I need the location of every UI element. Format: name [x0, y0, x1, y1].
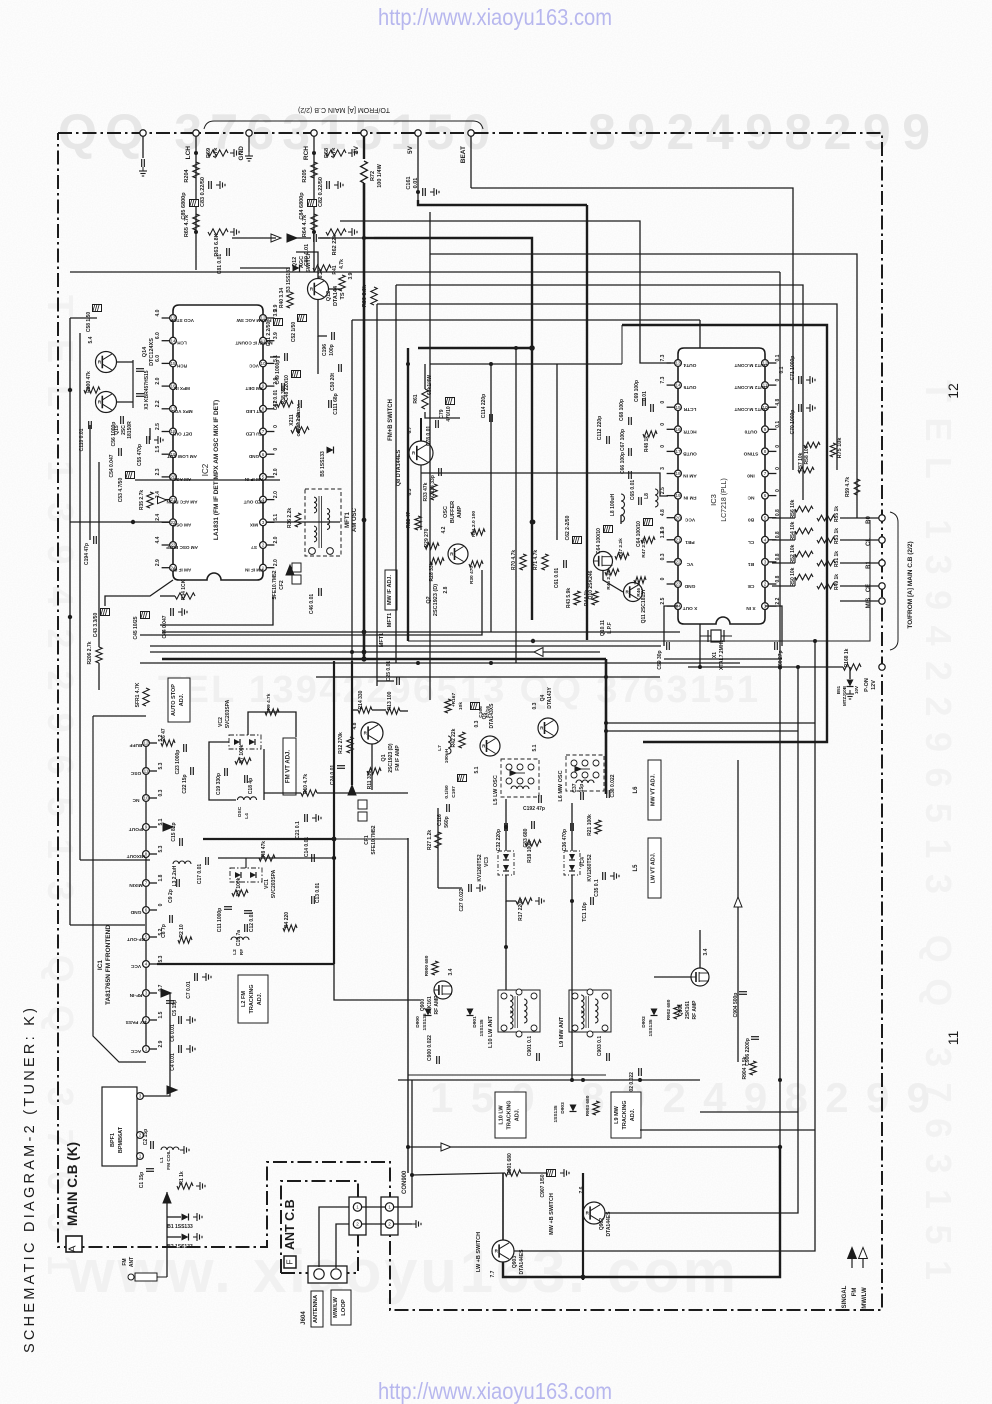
connector pin on top rail	[140, 130, 146, 136]
svg-text:MIX: MIX	[249, 522, 258, 527]
transistor Q5 DTA143XS	[480, 736, 500, 756]
capacitor C197 0.1/50 electrolytic	[458, 775, 467, 782]
svg-text:R36 2.2k: R36 2.2k	[287, 508, 293, 529]
svg-text:C4 0.01: C4 0.01	[170, 1053, 176, 1071]
IC3 pin 15	[675, 404, 682, 411]
resistor R34 1CK	[175, 593, 195, 599]
svg-text:3: 3	[764, 560, 767, 565]
IC2 pin 20	[170, 474, 177, 481]
IC2 pin 3	[260, 519, 267, 526]
svg-text:OUT2 M.CONT: OUT2 M.CONT	[734, 384, 767, 390]
connector pin M/S right rail	[879, 598, 885, 604]
capacitor C904 500p	[739, 991, 747, 993]
svg-text:6: 6	[145, 908, 148, 913]
svg-text:ADJ.: ADJ.	[630, 1108, 636, 1121]
resistor R57 10k	[798, 467, 814, 473]
svg-text:MW IF ADJ.: MW IF ADJ.	[387, 575, 393, 606]
IC1 pin 2	[143, 1017, 150, 1024]
resistor R52 10k	[795, 551, 813, 557]
node d2	[362, 518, 367, 523]
resistor R33 47k	[431, 484, 437, 500]
svg-text:C17 0.01: C17 0.01	[197, 864, 203, 885]
svg-text:20: 20	[675, 515, 681, 520]
wire bus y348	[418, 347, 532, 349]
svg-text:LCTR: LCTR	[683, 406, 696, 412]
capacitor C67 100p	[628, 448, 630, 456]
svg-text:BEAT: BEAT	[460, 146, 467, 163]
capacitor C9 2p	[176, 879, 178, 887]
arrow RF-IN	[161, 989, 171, 997]
svg-text:3: 3	[660, 467, 666, 470]
svg-text:C27 0.022: C27 0.022	[459, 888, 465, 911]
svg-text:ANT: ANT	[129, 1257, 135, 1267]
wire mw thick	[503, 1147, 780, 1277]
resistor R56 10k	[795, 506, 813, 512]
resistor R61 68k1/4W	[422, 389, 428, 409]
resistor R13 100	[386, 708, 400, 714]
svg-text:5.3: 5.3	[158, 762, 164, 769]
op-amp IC3 LC7218 outline	[678, 348, 765, 624]
capacitor C24 0.01	[337, 765, 345, 767]
svg-text:4.7k: 4.7k	[339, 259, 345, 269]
boxed label L2 FM TRACKING ADJ	[238, 975, 268, 1023]
IC3 pin 6	[762, 492, 769, 499]
wire bus y221	[340, 221, 671, 363]
svg-text:C37: C37	[572, 783, 578, 792]
svg-text:R58 10k: R58 10k	[804, 445, 810, 464]
IC3 pin 9	[762, 426, 769, 433]
wire c25 row	[377, 680, 394, 682]
arrow v738	[734, 897, 742, 907]
svg-text:4.2: 4.2	[273, 400, 279, 407]
IC3 pin 24	[675, 603, 682, 610]
resistor R51 1k	[817, 560, 835, 566]
svg-text:R14 330: R14 330	[358, 690, 364, 709]
capacitor C60 27p	[774, 642, 776, 650]
svg-text:0.8: 0.8	[775, 553, 781, 560]
arrow lw	[441, 1143, 451, 1151]
wire bus y625	[160, 596, 273, 625]
inductor L7 100uH	[448, 736, 451, 742]
resistor R167 10k	[445, 699, 451, 713]
svg-text:X211: X211	[289, 414, 295, 426]
capacitor C111 68p	[328, 400, 330, 408]
svg-text:R75 10k: R75 10k	[837, 437, 843, 459]
wire BEAT run	[471, 188, 793, 470]
IC1 pin 10	[143, 795, 150, 802]
diode B2 1SS133	[182, 1234, 189, 1241]
resistor R49 1k	[817, 583, 835, 589]
fet Q10 2SK246	[594, 552, 613, 571]
node d8	[406, 1145, 410, 1149]
wire staircase2	[514, 641, 815, 1251]
resistor R204	[193, 162, 199, 178]
resistor R45 2.2k	[605, 569, 619, 575]
node RCH b	[312, 230, 316, 234]
svg-text:C11 1000p: C11 1000p	[217, 908, 223, 932]
diode D901 1SS135	[467, 1009, 474, 1016]
svg-text:ADJ.: ADJ.	[515, 1108, 521, 1121]
svg-text:18150R: 18150R	[127, 421, 133, 439]
resistor R14 330	[358, 707, 372, 713]
svg-text:0.01: 0.01	[413, 178, 419, 189]
svg-text:C7 0.01: C7 0.01	[186, 981, 192, 999]
svg-text:RF-IN: RF-IN	[129, 992, 142, 998]
wire l4 inner	[263, 749, 265, 800]
svg-text:0.3: 0.3	[474, 720, 480, 727]
resistor R12 270k	[347, 737, 353, 753]
IC2 pin 15	[170, 360, 177, 367]
svg-text:1: 1	[145, 1047, 148, 1052]
svg-text:SFE10.7M52: SFE10.7M52	[272, 570, 278, 599]
capacitor C54 0.047	[118, 448, 120, 456]
IC2 pin 6	[260, 451, 267, 458]
IC3 pin 8	[762, 448, 769, 455]
boxed label L9 MW TRACKING ADJ	[611, 1092, 641, 1138]
svg-text:R33 47k: R33 47k	[423, 482, 429, 501]
arrow BPF out	[167, 1086, 177, 1094]
svg-text:LCH: LCH	[185, 146, 192, 160]
svg-text:R7 100k: R7 100k	[239, 744, 245, 763]
svg-text:AM AFC RF IN: AM AFC RF IN	[166, 500, 198, 505]
label F ANT C.B	[284, 1256, 296, 1268]
diode B3 1SS133	[293, 265, 300, 272]
svg-text:R43 5.9k: R43 5.9k	[566, 588, 572, 609]
capacitor C43 3.3/50 electrolytic	[101, 609, 110, 616]
capacitor C112 220p	[606, 436, 608, 444]
svg-text:0.1: 0.1	[775, 421, 781, 428]
svg-text:X OUT: X OUT	[683, 605, 698, 611]
svg-text:CON900: CON900	[402, 1170, 408, 1194]
IC3 pin 1	[762, 603, 769, 610]
node d23	[416, 661, 420, 665]
svg-text:R27 1.2k: R27 1.2k	[427, 830, 433, 851]
svg-text:DTA144: DTA144	[333, 285, 339, 306]
wire q902 col thick	[582, 1173, 584, 1280]
svg-text:21: 21	[675, 537, 681, 542]
svg-text:2.0: 2.0	[273, 559, 279, 566]
node d25	[350, 650, 354, 654]
IC2 pin 10	[260, 360, 267, 367]
wire q14 to x3	[116, 361, 133, 363]
resistor R17 220k	[516, 898, 532, 904]
svg-text:B51: B51	[836, 685, 841, 694]
svg-text:15p: 15p	[579, 784, 585, 793]
wire bus y659 thick	[162, 658, 606, 661]
svg-text:R71 4.7k: R71 4.7k	[533, 550, 539, 571]
wire c49 row	[270, 356, 280, 358]
diode D903 1SS135	[570, 1105, 577, 1112]
transformer L10 LW ANT	[498, 990, 540, 1032]
svg-text:0.1: 0.1	[775, 354, 781, 361]
svg-text:4.8: 4.8	[660, 509, 666, 516]
svg-text:C53 4.7/50: C53 4.7/50	[118, 478, 124, 503]
resistor R900 680	[432, 961, 438, 975]
capacitor C161 0.01	[422, 188, 424, 196]
svg-text:2.9: 2.9	[158, 1040, 164, 1047]
IC2 pin 11	[260, 337, 267, 344]
svg-text:0.3: 0.3	[158, 789, 164, 796]
resistor R7 100k	[235, 758, 251, 764]
node vc4 b	[570, 899, 574, 903]
svg-text:C64 100/10: C64 100/10	[596, 528, 602, 554]
IC3 pin 21	[675, 536, 682, 543]
BPF1 pin 3	[137, 1093, 144, 1100]
svg-text:OSC: OSC	[130, 770, 141, 776]
svg-text:C12 0.01: C12 0.01	[249, 912, 255, 933]
svg-text:3: 3	[145, 991, 148, 996]
connector pin LCH on top rail	[193, 130, 199, 136]
resistor R901 680	[505, 1170, 521, 1176]
capacitor C902 0.022	[638, 1068, 640, 1076]
capacitor C27 0.022	[468, 884, 470, 892]
svg-text:0: 0	[775, 445, 781, 448]
svg-text:16: 16	[675, 427, 681, 432]
wire vc3 down	[506, 875, 516, 901]
svg-text:0: 0	[273, 448, 279, 451]
svg-text:OUT1 M.CONT: OUT1 M.CONT	[734, 406, 767, 412]
svg-text:L8 100uH: L8 100uH	[610, 493, 616, 516]
wire vc3 col	[505, 799, 507, 851]
svg-text:C55 470p: C55 470p	[137, 444, 143, 466]
svg-text:R9 4.7k: R9 4.7k	[266, 693, 272, 710]
wire bus y646	[150, 645, 661, 647]
svg-text:R63 6.8K: R63 6.8K	[214, 233, 220, 256]
wire v491	[490, 364, 492, 632]
connector pin RCH on top rail	[311, 130, 317, 136]
svg-text:R35 2.7k: R35 2.7k	[139, 490, 145, 511]
svg-text:2SK161: 2SK161	[685, 1001, 691, 1019]
IC2 pin15 stub	[162, 362, 170, 364]
svg-text:0.1/50: 0.1/50	[444, 785, 450, 799]
svg-text:R62 22k: R62 22k	[332, 234, 338, 256]
svg-text:B1: B1	[748, 561, 754, 567]
svg-text:11: 11	[945, 1031, 961, 1046]
wire v396	[395, 285, 397, 663]
inductor L4 coil	[237, 797, 243, 800]
wire lch down	[195, 238, 197, 270]
wire stair b	[407, 838, 409, 1173]
wire vc4 down	[571, 875, 573, 1080]
capacitor X211 CBA10.7M537A	[298, 400, 300, 408]
node d13	[362, 630, 367, 635]
svg-text:1SS135: 1SS135	[479, 1019, 485, 1036]
IC2 pin 21	[170, 496, 177, 503]
IC1 pin 3	[143, 990, 150, 997]
svg-text:R901 680: R901 680	[507, 1153, 513, 1175]
svg-text:11: 11	[144, 769, 149, 774]
BPF1 pin 2	[137, 1132, 144, 1139]
svg-text:0.8: 0.8	[775, 531, 781, 538]
svg-text:3: 3	[139, 1094, 142, 1099]
wire thick v408	[407, 348, 409, 641]
svg-text:5: 5	[764, 515, 767, 520]
capacitor C62 2-2/50 electrolytic	[573, 537, 582, 544]
svg-text:ANTENNA: ANTENNA	[313, 1294, 319, 1323]
svg-text:R18 100k: R18 100k	[527, 841, 533, 863]
svg-text:ACC: ACC	[130, 1048, 141, 1054]
wire mid h520 right	[267, 521, 340, 523]
svg-text:2.5: 2.5	[155, 423, 161, 430]
svg-text:P-ON: P-ON	[864, 678, 870, 692]
svg-text:R61: R61	[413, 394, 419, 403]
antenna FM ANT jack	[135, 1273, 157, 1281]
capacitor C901 0.1	[536, 1053, 538, 1061]
svg-text:2.8: 2.8	[443, 586, 449, 593]
node l2 corner	[332, 837, 337, 842]
svg-text:R205: R205	[302, 169, 308, 182]
capacitor C70 1000p	[798, 404, 800, 412]
svg-text:R64 4.7k: R64 4.7k	[302, 214, 308, 237]
wire r61 c79	[425, 412, 460, 418]
wire l8 down	[620, 515, 622, 524]
svg-text:R100 47k: R100 47k	[86, 371, 92, 393]
svg-text:2: 2	[388, 1222, 391, 1227]
wire bottom h925	[70, 924, 145, 926]
wire bus y663	[140, 662, 740, 664]
node d15	[604, 721, 608, 725]
resistor R50 10k	[795, 574, 813, 580]
wire v780 long	[779, 272, 781, 1147]
resistor R70 4.7k	[520, 554, 526, 570]
svg-text:LCH: LCH	[177, 341, 187, 346]
inner dash box ANT C.B	[281, 1181, 358, 1273]
svg-text:http://www.xiaoyu163.com: http://www.xiaoyu163.com	[378, 1378, 612, 1404]
svg-text:2.0: 2.0	[155, 377, 161, 384]
resistor R55 1k	[817, 515, 835, 521]
wire q8 down	[420, 465, 422, 530]
svg-text:Q12: Q12	[326, 291, 332, 301]
resistor R904 1.5k	[750, 1061, 756, 1075]
capacitor C12 0.01	[244, 910, 252, 912]
svg-text:C15 82p: C15 82p	[171, 822, 177, 841]
capacitor C79 470/10 electrolytic	[446, 398, 455, 405]
wire v738	[737, 760, 739, 1062]
svg-text:C43 3.3/50: C43 3.3/50	[93, 613, 99, 638]
capacitor C19 330p	[224, 768, 226, 776]
svg-text:100 1/4W: 100 1/4W	[377, 163, 383, 187]
capacitor C32 220p	[504, 823, 506, 831]
svg-text:R47 2.2k: R47 2.2k	[641, 538, 647, 558]
resistor R168 1k	[843, 664, 861, 670]
svg-text:10V: 10V	[854, 686, 859, 694]
fet Q901 2SK161	[691, 968, 709, 986]
wire bus y1075 thick	[408, 1074, 606, 1076]
svg-text:AM IF IN: AM IF IN	[172, 568, 191, 573]
svg-text:TC1 10p: TC1 10p	[582, 902, 588, 921]
IC3 pin 18	[675, 470, 682, 477]
boxed label L10 LW TRACKING ADJ	[495, 1092, 526, 1138]
crystal X1 XTAL7.2MHz	[700, 635, 732, 637]
resistor R902 680	[674, 1005, 680, 1019]
svg-text:R37 2.2k: R37 2.2k	[296, 412, 302, 433]
IC3 pin 7	[762, 470, 769, 477]
svg-text:MFT1: MFT1	[379, 633, 385, 647]
svg-text:GND: GND	[248, 454, 259, 459]
node 5V j	[416, 190, 420, 194]
resistor R31 100	[471, 529, 485, 535]
svg-text:B2 1SS133: B2 1SS133	[167, 1244, 193, 1250]
ceramic resonator X3 KBR457HS15	[132, 360, 134, 408]
svg-text:R51 1k: R51 1k	[834, 551, 840, 567]
capacitor C23 1000p	[183, 744, 185, 752]
svg-text:0: 0	[158, 903, 164, 906]
svg-text:TO/FROM [A] MAIN C.B (2/2): TO/FROM [A] MAIN C.B (2/2)	[907, 541, 914, 628]
resistor R68 4.7k	[326, 150, 346, 156]
wire q1 top row2	[372, 709, 386, 711]
svg-text:RED OUT: RED OUT	[243, 500, 264, 505]
wire l4 to r10	[264, 792, 301, 794]
wire RCH feed	[313, 136, 315, 238]
transistor Q8 DTA144ES	[409, 441, 433, 465]
svg-text:GND: GND	[130, 909, 141, 915]
wire r61 top	[424, 364, 426, 389]
capacitor C25 0.01	[396, 677, 398, 685]
svg-text:MPX IN: MPX IN	[173, 386, 190, 391]
svg-text:9: 9	[764, 427, 767, 432]
svg-text:R39 3.9k: R39 3.9k	[362, 284, 368, 307]
connector pin P-ON	[879, 664, 885, 670]
connector pin BEAT on top rail	[468, 130, 474, 136]
wire pin20 branch	[149, 428, 151, 440]
svg-text:MW/LW: MW/LW	[862, 1287, 868, 1309]
wire ic2 bottom loop	[105, 580, 173, 606]
svg-text:2.5: 2.5	[660, 487, 666, 494]
capacitor C8 7p	[169, 915, 171, 923]
svg-text:2.9: 2.9	[155, 559, 161, 566]
svg-text:C9 2p: C9 2p	[168, 889, 174, 903]
svg-text:0: 0	[660, 401, 666, 404]
wire v557	[556, 364, 558, 540]
svg-text:OSC: OSC	[443, 506, 449, 518]
capacitor C52 1/50 electrolytic	[298, 315, 307, 322]
svg-text:VC3: VC3	[484, 857, 490, 867]
IC2 right pin9 stub	[266, 385, 274, 387]
svg-text:7.3: 7.3	[660, 376, 666, 383]
capacitor C69 100p	[642, 398, 644, 406]
svg-text:5.3: 5.3	[158, 845, 164, 852]
svg-text:J604: J604	[301, 1311, 307, 1325]
capacitor C37 15p	[580, 792, 582, 800]
svg-text:B5 1SS133: B5 1SS133	[320, 451, 326, 477]
capacitor C33 680	[531, 821, 533, 829]
boxed label L5 LW VT ADJ	[648, 838, 661, 898]
svg-text:OUT0: OUT0	[744, 428, 757, 434]
svg-text:IC3: IC3	[709, 494, 718, 506]
wire bus y254	[430, 254, 857, 518]
wire 8V bus down	[363, 183, 366, 659]
IC2 pin 16	[170, 383, 177, 390]
capacitor C56 1000p	[120, 416, 122, 424]
svg-text:0.8: 0.8	[775, 509, 781, 516]
svg-text:0: 0	[660, 445, 666, 448]
wire h1130	[640, 1129, 815, 1131]
IC2 pin 1	[260, 564, 267, 571]
svg-text:C197: C197	[451, 786, 457, 798]
svg-text:0: 0	[660, 423, 666, 426]
resistor R21 100k	[595, 820, 601, 834]
resistor R32 47	[415, 516, 421, 530]
transistor Q1 2SC1923	[361, 722, 383, 744]
boxed label L6 MW VT ADJ	[648, 760, 661, 820]
capacitor C68 100p	[628, 417, 630, 425]
IC1 pin 9	[143, 824, 150, 831]
svg-text:FM IN: FM IN	[683, 495, 697, 501]
arrow AGC open	[271, 234, 281, 242]
svg-text:L9 MW: L9 MW	[614, 1105, 620, 1124]
svg-text:RF AMP: RF AMP	[692, 1000, 698, 1020]
svg-text:C2 15p: C2 15p	[143, 1129, 149, 1145]
